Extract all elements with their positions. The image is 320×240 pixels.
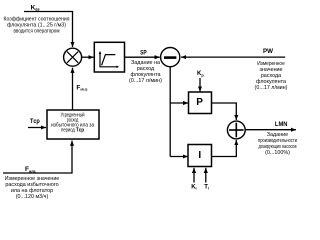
svg-text:SP: SP — [140, 50, 147, 57]
svg-text:(0...120 м3/ч): (0...120 м3/ч) — [16, 194, 49, 200]
multiplier (x) junction — [64, 48, 82, 66]
wire SP to subtractor — [125, 56, 160, 58]
svg-text:Kp: Kp — [197, 71, 204, 77]
annotation F ила measured sludge flow — [5, 176, 60, 200]
wire error to I block — [170, 156, 188, 158]
wire F ила measured into averaging block — [3, 141, 72, 173]
svg-text:производительности: производительности — [258, 138, 297, 144]
wire Ki into I block — [193, 168, 195, 183]
wire PW into subtractor — [181, 56, 285, 58]
wire I output to adder — [212, 140, 237, 157]
svg-text:Задание: Задание — [267, 132, 288, 138]
summing junction (+) — [227, 121, 245, 139]
annotation LMN dosing pumps note — [258, 132, 297, 156]
svg-text:I: I — [198, 150, 201, 161]
svg-text:Ki: Ki — [191, 184, 196, 190]
limiter block (setpoint ramp/saturation) — [94, 42, 124, 72]
svg-text:(0...17 л/мин): (0...17 л/мин) — [255, 85, 288, 91]
block P (proportional) — [189, 92, 212, 114]
svg-text:период Tср: период Tср — [61, 128, 84, 134]
svg-text:Ti: Ti — [204, 184, 209, 190]
svg-text:Fила ср: Fила ср — [76, 85, 87, 92]
wire multiplier to limiter — [82, 56, 94, 58]
wire P output to adder — [212, 103, 237, 120]
wire Tср into averaging block — [28, 127, 46, 129]
block I (integral) — [188, 145, 212, 167]
annotation PW measured flocculant flow — [255, 61, 288, 91]
wire Kфв into multiplier — [24, 12, 73, 48]
wire Kp into P block — [199, 78, 201, 92]
svg-text:(0...100%): (0...100%) — [265, 150, 290, 156]
wire error to P block — [170, 102, 188, 104]
svg-text:вводится оператором: вводится оператором — [14, 29, 60, 35]
svg-text:(0...17 л/мин): (0...17 л/мин) — [129, 78, 162, 84]
annotation Kфв operator note — [4, 17, 70, 35]
block averaging (mean flow over Tср) — [47, 110, 99, 139]
summing junction (-) — [161, 48, 180, 67]
wire Ti into I block — [205, 168, 207, 183]
svg-text:дозирующих насосов: дозирующих насосов — [259, 144, 297, 150]
wire error signal vertical — [169, 67, 171, 157]
svg-text:PW: PW — [263, 48, 274, 55]
svg-text:P: P — [196, 97, 203, 108]
annotation SP setpoint note — [129, 60, 162, 84]
wire LMN output — [245, 129, 296, 131]
svg-text:Kфв: Kфв — [31, 4, 41, 11]
wire averaging block to multiplier — [72, 68, 74, 110]
svg-text:Tср: Tср — [30, 118, 40, 125]
svg-text:Fила: Fила — [25, 166, 36, 173]
svg-text:LMN: LMN — [275, 121, 288, 128]
